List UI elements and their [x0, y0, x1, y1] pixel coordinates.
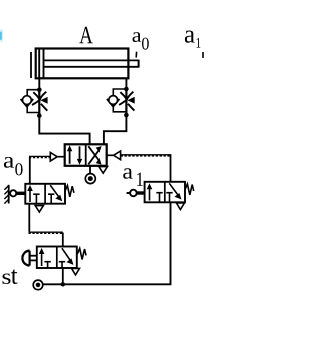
pilot triangle left of main valve — [50, 152, 64, 161]
main valve U1: 4/2-way double pilot impulse valve — [65, 144, 107, 166]
marker tick a1 — [202, 52, 204, 58]
left box parallel arrows — [69, 150, 71, 164]
blue smudge artifact top-left — [0, 29, 3, 42]
marker tick a0 — [135, 52, 137, 58]
left box: flow arrow + blocked T — [41, 252, 43, 266]
label st — [3, 274, 11, 285]
wire: cylinder left port down to flow control — [38, 78, 40, 90]
exhaust triangle below st valve — [72, 268, 80, 275]
flow control valve (one-way) right — [107, 87, 135, 118]
left box: flow arrow + blocked T — [29, 189, 31, 202]
wire: st port1 down to supply line — [62, 268, 64, 284]
flow control valve (one-way) left — [21, 87, 48, 118]
exhaust triangle below a0 valve — [35, 206, 43, 212]
spring right — [185, 184, 194, 195]
wire: supply line bottom and up right side to a1 port1 — [43, 202, 171, 284]
spring right — [65, 186, 74, 197]
right box: T + diagonal exhaust arrow — [48, 193, 54, 195]
limit valve a1: 3/2 roller valve — [127, 182, 194, 203]
left box: flow arrow + blocked T — [149, 187, 151, 200]
exhaust arrow below main valve port 3 — [99, 167, 108, 174]
wire: flow control left down and right to valve port 4 — [39, 116, 89, 145]
wire: cylinder right port down to flow control — [125, 78, 127, 89]
spring right — [77, 248, 86, 259]
wire: pilot line from a0 valve up to left pilot (dashed) — [29, 156, 50, 183]
wire: flow control right down and left to valve port 2 — [104, 115, 127, 144]
wire: pilot line right to a1 valve (dashed) — [121, 155, 172, 182]
label A (cylinder name) — [79, 27, 92, 44]
right box: T + diagonal exhaust arrow — [166, 192, 172, 194]
push button actuator — [22, 251, 29, 266]
right box: T + diagonal exhaust arrow — [59, 261, 65, 263]
label a1 (position marker top right) — [185, 31, 201, 48]
pilot triangle right of main valve — [107, 151, 121, 160]
compressed air source bottom left — [33, 280, 43, 290]
cylinder A (double-acting) — [31, 49, 139, 79]
start valve st: 3/2 push-button valve — [22, 247, 86, 269]
label a0 (limit valve) — [4, 157, 23, 175]
roller actuator with wall — [10, 190, 16, 196]
roller actuator — [130, 190, 137, 197]
label a1 (limit valve) — [123, 168, 143, 186]
label a0 (position marker above cylinder rod) — [133, 32, 149, 49]
right box crossed arrows — [88, 151, 98, 165]
exhaust triangle below a1 valve — [177, 203, 185, 210]
limit valve a0: 3/2 roller valve, actuated — [4, 184, 74, 204]
compressed air source under main valve — [85, 174, 95, 184]
wire: main valve port 1 stem — [89, 166, 91, 174]
junction node — [61, 282, 65, 286]
wire: a0 port1 down, right, to st valve (middle dashed) — [29, 204, 63, 247]
